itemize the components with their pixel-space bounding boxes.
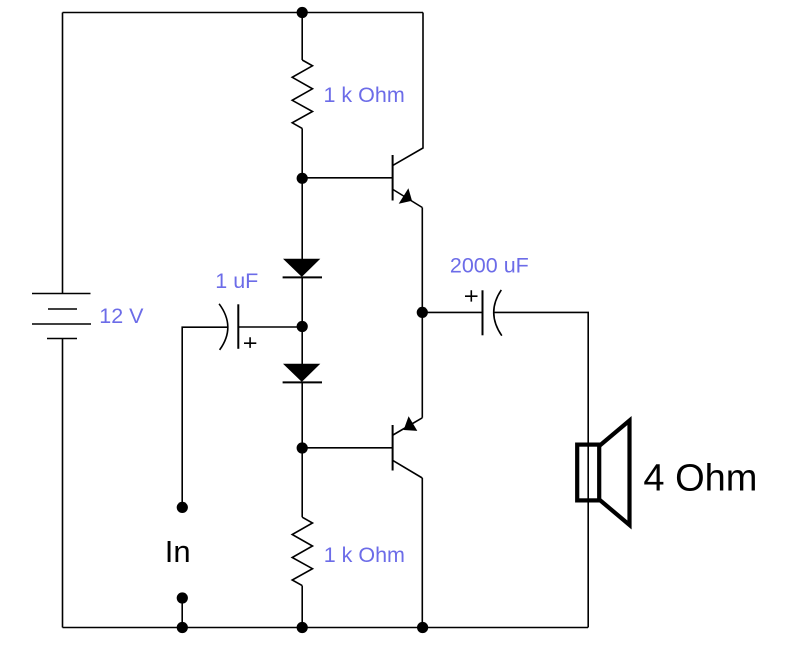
resistor R2 bottom lead — [301, 586, 303, 628]
node In lower terminal — [177, 592, 188, 603]
diode D2 triangle — [283, 364, 320, 382]
wire top-right corner to transistor collector — [393, 13, 423, 166]
node ground rail / Q2 collector — [417, 622, 428, 633]
capacitor C2 plus sign — [465, 290, 478, 301]
node ground rail / In — [177, 622, 188, 633]
capacitor C1 plus sign — [244, 337, 256, 348]
wire node to output cap — [422, 311, 482, 313]
wire In lower terminal to ground rail — [181, 598, 183, 628]
resistor R1 top lead — [301, 13, 303, 61]
svg-text:1 k Ohm: 1 k Ohm — [324, 543, 405, 567]
wire base of Q1 — [302, 177, 392, 179]
diode D2 cathode bar — [283, 381, 322, 383]
transistor Q1 emitter diagonal — [393, 190, 422, 208]
svg-text:2000 uF: 2000 uF — [450, 253, 529, 277]
wire Q2 collector vertical — [421, 478, 423, 628]
svg-text:4 Ohm: 4 Ohm — [643, 457, 757, 499]
transistor Q1 emitter arrow — [399, 188, 412, 204]
node output / C2 — [417, 307, 428, 318]
resistor R2 1 k Ohm zigzag — [292, 517, 312, 585]
node between diodes / C1 — [297, 321, 308, 332]
svg-text:In: In — [165, 534, 191, 569]
battery B1 12V — [32, 294, 91, 339]
transistor Q2 emitter diagonal — [393, 418, 422, 435]
svg-text:1 k Ohm: 1 k Ohm — [324, 83, 405, 107]
capacitor C2 curved plate — [494, 290, 502, 336]
wire left rail upper — [62, 13, 64, 294]
node In upper terminal — [177, 502, 188, 513]
wire cap to speaker corner — [494, 312, 588, 627]
transistor Q2 PNP bar — [392, 425, 394, 471]
node D2 / Q2 base / R2 — [297, 442, 308, 453]
capacitor C1 1uF curved plate — [219, 304, 228, 350]
resistor R1 bottom lead — [301, 128, 303, 178]
capacitor C2 2000uF plus plate — [482, 290, 484, 335]
wire node to D2 — [301, 326, 303, 364]
capacitor C1 straight plate — [237, 304, 239, 349]
wire cap C1 left lead and input drop — [182, 327, 227, 507]
svg-text:1 uF: 1 uF — [215, 269, 258, 293]
wire bottom rail — [63, 627, 589, 629]
node R1 / D1 / Q1 base — [297, 173, 308, 184]
speaker LS1 box — [577, 445, 599, 501]
wire Q2 emitter vertical to output node — [421, 312, 423, 418]
resistor R2 top lead — [301, 448, 303, 517]
node top rail / R1 — [297, 7, 308, 18]
wire D2 to lower node — [301, 382, 303, 448]
resistor R1 1 k Ohm zigzag — [292, 60, 312, 128]
wire diode column upper — [301, 178, 303, 259]
transistor Q2 collector diagonal — [393, 461, 422, 478]
wire top rail — [63, 12, 424, 14]
wire cap C1 right lead — [238, 326, 302, 328]
wire Q1 emitter vertical — [421, 208, 423, 313]
wire base of Q2 — [302, 447, 392, 449]
transistor Q2 emitter arrow — [404, 416, 418, 431]
svg-text:12 V: 12 V — [99, 304, 144, 328]
node ground rail / R2 — [297, 622, 308, 633]
diode D1 triangle — [283, 259, 320, 277]
diode D1 cathode bar — [283, 276, 322, 278]
wire between D1 and node — [301, 277, 303, 326]
wire left rail lower — [62, 339, 64, 628]
speaker LS1 horn — [599, 421, 629, 526]
transistor Q1 NPN bar — [392, 155, 394, 201]
